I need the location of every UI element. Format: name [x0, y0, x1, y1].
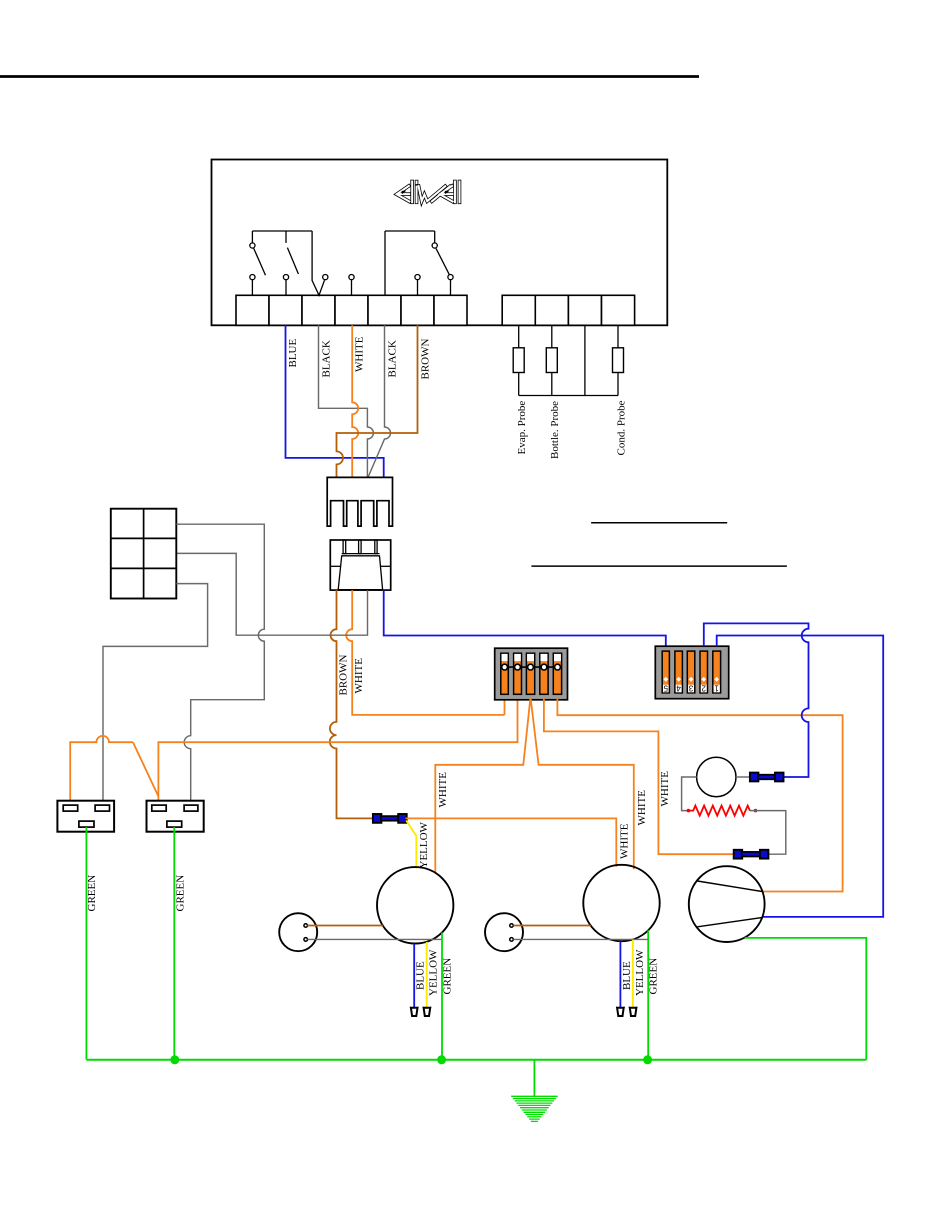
svg-text:GREEN: GREEN	[174, 875, 186, 912]
label GREEN outlet1	[86, 875, 98, 912]
male connector plug	[327, 477, 392, 526]
outlet socket 2 body	[147, 801, 204, 832]
relay contact group 2 top bar	[385, 230, 435, 232]
wire brown plug2 to fan2	[513, 925, 590, 927]
probe common wire	[584, 325, 586, 395]
wire orange DIP1-slot2 to outlet2	[158, 700, 517, 806]
wire gray plug1 to fan1 green	[308, 938, 443, 940]
earth ground symbol	[511, 1095, 558, 1097]
wire yellow fan2 tail	[632, 940, 634, 1008]
svg-text:YELLOW: YELLOW	[634, 949, 646, 996]
wire blue (terminal2 to connector pin4)	[286, 325, 384, 477]
wire brown (terminal6 to connector pin1)	[337, 325, 418, 477]
spade terminal fan1 blue	[410, 1006, 419, 1008]
label BLACK 2	[387, 340, 399, 377]
relay K2 blade	[287, 248, 298, 274]
svg-text:WHITE: WHITE	[619, 823, 631, 859]
label GREEN outlet2	[174, 875, 186, 912]
svg-text:Cond. Probe: Cond. Probe	[615, 400, 627, 455]
wire yellow splice1 to fan1	[406, 821, 416, 869]
klixon overload circle	[697, 757, 736, 796]
relay contact group 1 top bar	[252, 230, 312, 232]
plug1 pin A	[304, 924, 308, 928]
relay K2 stub	[285, 231, 287, 243]
spade terminal fan2 blue	[616, 1006, 625, 1008]
terminal pin circle t7	[448, 275, 453, 280]
wire orange diagonal join	[133, 742, 158, 796]
compressor circle	[689, 866, 765, 942]
wire brown below connector	[330, 590, 373, 818]
wire green fan2 to bus	[647, 930, 649, 1060]
probe wire cond	[617, 325, 619, 348]
plug2 pin A	[510, 924, 514, 928]
relay K3 blade	[436, 248, 449, 274]
label YELLOW fan1	[418, 821, 430, 868]
wire gray klixon to splice3	[736, 776, 750, 778]
svg-text:BLUE: BLUE	[287, 339, 299, 368]
wire orange DIP1-slot3 V-split	[435, 697, 530, 873]
wire gray plug2 to fan2 green	[513, 938, 648, 940]
svg-text:GREEN: GREEN	[86, 875, 98, 912]
relay K3 stub + pivot	[434, 231, 436, 243]
svg-text:WHITE: WHITE	[636, 790, 648, 826]
svg-text:BLACK: BLACK	[321, 340, 333, 377]
spade terminal fan1 yellow	[423, 1006, 432, 1008]
label BLUE	[287, 339, 299, 368]
wire blue DIP2-slot2 to klixon	[704, 623, 809, 777]
probe wire evap	[518, 325, 520, 348]
wire brown plug1 to fan1	[308, 925, 383, 927]
wire green compressor to bus	[745, 938, 867, 1060]
resistor start node dot	[687, 809, 691, 813]
terminal pin circle t6	[415, 275, 420, 280]
junction dot fan1 green	[437, 1055, 446, 1064]
interlock grid box	[111, 509, 177, 599]
wire orange DIP1-slot4 to splice2	[544, 697, 734, 854]
wire orange DIP1-slot5 to compressor	[557, 697, 842, 892]
female connector teeth	[343, 540, 346, 554]
svg-text:WHITE: WHITE	[354, 336, 366, 372]
junction dot outlet2 green	[170, 1055, 179, 1064]
blank line 1	[591, 522, 727, 524]
DIP terminal block 1 body	[495, 648, 568, 700]
resistor end node dot	[754, 809, 758, 813]
wire black1 (terminal3 to connector pin3)	[319, 325, 374, 477]
plug1 pin B	[304, 938, 308, 942]
bottle probe resistor	[546, 348, 557, 373]
capacitor plug 1 circle	[279, 913, 317, 951]
terminal pin circle t1	[250, 275, 255, 280]
label WHITE defrost feed	[659, 771, 671, 807]
outlet1 slot earth	[79, 821, 94, 827]
svg-text:4: 4	[676, 684, 681, 693]
wire black2 (terminal5 to connector pin3)	[368, 325, 391, 477]
wire gray grid-row2 to connector pin3	[176, 553, 367, 635]
svg-text:YELLOW: YELLOW	[418, 821, 430, 868]
DIP1 shorting bar with pins	[505, 666, 558, 668]
plug2 pin B	[510, 938, 514, 942]
wire green outlet2 to earth bus	[173, 827, 175, 1060]
start-winding resistor zigzag	[688, 806, 750, 816]
svg-text:WHITE: WHITE	[659, 771, 671, 807]
DIP1 switch slots	[501, 653, 509, 694]
label BROWN 2	[338, 655, 350, 696]
wire blue fan1 tail	[413, 944, 415, 1008]
label BLUE fan2	[621, 961, 633, 990]
fan motor 1 circle	[377, 867, 453, 943]
svg-text:BLACK: BLACK	[387, 340, 399, 377]
label BLUE fan1	[415, 961, 427, 990]
splice connector 2 (defrost)	[734, 850, 743, 859]
blank line 2	[531, 565, 787, 567]
ground stub	[533, 1060, 535, 1097]
label GREEN fan1	[442, 958, 454, 995]
outlet2 slot earth	[167, 821, 182, 827]
spade terminal fan2 yellow	[629, 1006, 638, 1008]
wire gray grid-row1 to outlet2	[176, 524, 264, 805]
DIP2 switch slots with numbers	[662, 651, 669, 693]
capacitor plug 2 circle	[485, 913, 523, 951]
probe input terminal strip (4 cells)	[502, 295, 535, 325]
probe common bus	[519, 395, 618, 397]
label GREEN fan2	[648, 958, 660, 995]
wire white (terminal4 to connector pin2)	[352, 325, 358, 477]
label BLACK 1	[321, 340, 333, 377]
svg-text:Evap. Probe: Evap. Probe	[516, 401, 528, 455]
female connector side ribs	[330, 565, 340, 567]
svg-text:2: 2	[701, 684, 706, 693]
controller XR box outline	[212, 160, 668, 326]
terminal pin circle t2	[283, 275, 288, 280]
label Bottle. Probe	[549, 401, 561, 459]
contact common drop to terminal 3	[312, 231, 324, 295]
svg-text:BLUE: BLUE	[621, 961, 633, 990]
wire blue connector pin4 to DIP2 slot5	[384, 590, 666, 646]
svg-text:BLUE: BLUE	[415, 961, 427, 990]
cond probe resistor	[613, 348, 624, 373]
wire orange branch outlet1 segment	[70, 736, 133, 806]
fan motor 2 circle	[583, 865, 659, 941]
controller output terminal strip (7 cells)	[236, 295, 269, 325]
label WHITE fan2 left	[619, 823, 631, 859]
svg-text:WHITE: WHITE	[437, 772, 449, 808]
splice connector 3 (klixon)	[750, 773, 759, 782]
compressor winding chord 1	[697, 881, 762, 892]
splice connector 1 (fan feed)	[373, 814, 382, 823]
svg-text:YELLOW: YELLOW	[428, 949, 440, 996]
svg-text:WHITE: WHITE	[353, 658, 365, 694]
wire green fan1 to bus	[441, 933, 443, 1060]
grid box inner lines	[143, 509, 145, 599]
outlet1 slot L	[63, 805, 77, 811]
wire blue DIP2-slot1 to compressor	[717, 636, 884, 917]
female connector wedge	[338, 556, 382, 590]
wire gray grid-row3 to outlet1	[103, 584, 208, 806]
svg-text:BROWN: BROWN	[420, 339, 432, 380]
terminal pin circle t4	[349, 275, 354, 280]
wire green outlet1 to earth bus	[85, 827, 87, 1060]
wire white below connector to DIP slot1	[346, 590, 504, 715]
outlet2 slot R	[184, 805, 198, 811]
label WHITE 1	[354, 336, 366, 372]
eliwell logo	[397, 186, 410, 202]
wire blue fan2 tail	[619, 941, 621, 1007]
probe wire bottle	[551, 325, 553, 348]
label WHITE 2	[353, 658, 365, 694]
label YELLOW fan2 tail	[634, 949, 646, 996]
label Evap. Probe	[516, 401, 528, 455]
female connector latch bar	[342, 553, 380, 555]
label Cond. Probe	[615, 400, 627, 455]
earth bus	[86, 1059, 866, 1061]
terminal pin circle t3	[323, 275, 328, 280]
compressor winding chord 2	[697, 917, 762, 926]
outlet2 slot L	[152, 805, 166, 811]
wire gray klixon-left to resistor	[682, 777, 697, 811]
svg-text:3: 3	[688, 684, 693, 693]
top rule	[0, 75, 699, 78]
wire gray resistor to splice2	[750, 811, 786, 855]
svg-text:Bottle. Probe: Bottle. Probe	[549, 401, 561, 459]
wire orange splice1 to fan2	[406, 818, 617, 866]
DIP terminal block 2 body	[655, 646, 728, 699]
wire yellow fan1 tail	[426, 942, 428, 1008]
junction dot fan2 green	[643, 1055, 652, 1064]
outlet socket 1 body	[57, 801, 114, 832]
label WHITE fan2 feed	[636, 790, 648, 826]
label WHITE fan1 feed	[437, 772, 449, 808]
outlet1 slot R	[95, 805, 109, 811]
DIP1 slot1 stub	[504, 700, 506, 715]
svg-text:GREEN: GREEN	[442, 958, 454, 995]
group2 common drop to terminal 5	[384, 231, 386, 295]
svg-text:BROWN: BROWN	[338, 655, 350, 696]
relay K1 stub + pivot	[251, 231, 253, 243]
svg-text:1: 1	[714, 684, 719, 693]
svg-text:5: 5	[663, 684, 668, 693]
relay K1 blade (open)	[254, 248, 266, 275]
female connector socket outline	[330, 540, 390, 590]
label BROWN 1	[420, 339, 432, 380]
label YELLOW fan1 tail	[428, 949, 440, 996]
evap probe resistor	[513, 348, 524, 373]
svg-text:GREEN: GREEN	[648, 958, 660, 995]
